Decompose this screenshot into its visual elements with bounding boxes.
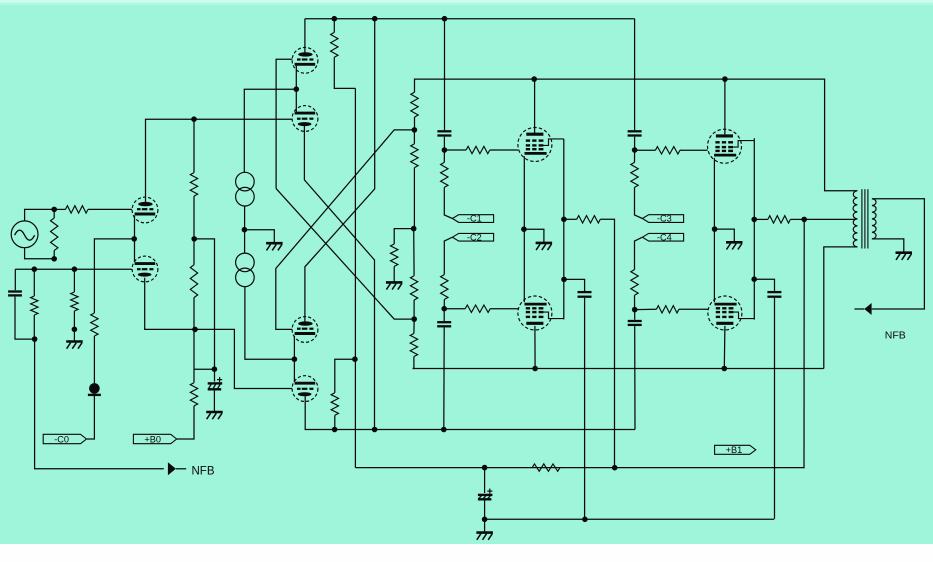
wire x634 top <box>634 19 636 130</box>
resistor R2 input shunt <box>51 218 58 251</box>
wire R10 lead <box>414 117 416 130</box>
triode V3b <box>292 106 318 132</box>
junction <box>442 147 448 153</box>
resistor R5 bias leg <box>91 313 98 336</box>
resistor R17 grid P3 <box>465 305 490 312</box>
wire R3 leads <box>33 269 35 339</box>
capacitor C4 <box>437 322 451 326</box>
junction <box>242 227 248 233</box>
wire R19 leads <box>635 308 708 310</box>
capacitor E1 electrolytic <box>208 369 223 389</box>
resistor R25 screen <box>768 216 791 223</box>
wire branch to R15 <box>335 359 355 393</box>
wire R25 leads <box>754 218 804 220</box>
junction <box>32 266 38 272</box>
wire cathode col lower right <box>713 229 715 302</box>
resistor R13 <box>410 334 417 357</box>
wire rail to V4a plate diagonal <box>305 19 375 323</box>
wire long column x355 <box>354 88 356 467</box>
label NFB <box>885 330 906 342</box>
triode V3a upper <box>292 47 318 73</box>
ground <box>476 519 493 540</box>
wire screen column left <box>563 139 565 320</box>
junction <box>191 116 197 122</box>
resistor R20 <box>441 162 448 187</box>
junction <box>531 76 537 82</box>
wire V2a cathode <box>134 216 136 239</box>
svg-text:NFB: NFB <box>885 330 906 342</box>
wire R9 leads <box>334 19 355 89</box>
capacitor C1 <box>8 292 22 296</box>
junction <box>292 356 298 362</box>
background top light strip <box>0 0 933 5</box>
wire source bottom <box>25 248 55 259</box>
wire cathode col lower <box>523 229 525 302</box>
capacitor C6 <box>578 292 592 297</box>
wire T2 secondary bottom <box>872 239 904 252</box>
transformer T2 secondary <box>872 199 876 239</box>
wire R1 leads <box>54 208 132 210</box>
wire V3a plate to rail <box>304 19 306 54</box>
junction <box>32 336 38 342</box>
resistor R11 <box>411 144 418 168</box>
wire -C2 to R21 <box>444 237 452 274</box>
wire R21 to node <box>443 300 445 309</box>
flag -C3 <box>642 214 683 224</box>
wire screen column right <box>753 138 755 319</box>
junction <box>561 217 567 223</box>
resistor R4 cathode <box>71 292 78 311</box>
junction <box>712 226 718 232</box>
wire E2 to ground line <box>484 501 486 520</box>
transformer T2 core <box>862 189 868 248</box>
resistor R22 <box>631 162 638 187</box>
resistor R10 <box>411 92 418 117</box>
wire lamp to -C0 <box>87 395 95 439</box>
wire plate bus lower <box>413 368 824 370</box>
junction <box>632 147 638 153</box>
resistor R12 <box>410 276 417 300</box>
wire R5 to lamp <box>93 336 95 383</box>
wire V4a cathode <box>293 336 295 359</box>
wire T1 bottom to driver junction <box>245 287 295 360</box>
arrow NFB in <box>854 303 871 315</box>
junction <box>372 16 378 22</box>
svg-text:-C4: -C4 <box>657 232 672 242</box>
junction <box>411 226 417 232</box>
wire R18 leads <box>635 149 708 151</box>
svg-text:NFB: NFB <box>192 466 215 478</box>
junction <box>582 517 588 523</box>
wire -C4 to R23 <box>635 237 643 269</box>
wire T1 mid <box>244 206 246 253</box>
wire bus to transformer bottom <box>824 247 858 369</box>
wire R8 to +B0 flag <box>177 406 194 439</box>
wire C4 leads <box>443 309 445 430</box>
wire V3b grid lead <box>194 118 292 120</box>
junction <box>632 307 638 313</box>
wire R24 leads <box>564 219 615 467</box>
capacitor C2 <box>437 131 451 135</box>
ground <box>386 266 403 289</box>
wire V3a grid <box>276 59 292 188</box>
junction <box>442 16 448 22</box>
wire V7 plate <box>534 326 536 369</box>
junction <box>412 127 418 133</box>
wire V4b plate lead <box>293 359 295 382</box>
ground <box>715 229 743 249</box>
wire decoupling branch <box>194 239 214 369</box>
resistor R23 <box>631 270 638 296</box>
wire cap C1 branch <box>14 269 16 290</box>
label NFB <box>192 466 215 478</box>
ground <box>66 329 83 348</box>
signal source V1 <box>11 221 38 248</box>
background bottom white band <box>0 544 933 562</box>
ground <box>896 253 913 260</box>
junction <box>482 465 488 471</box>
junction <box>191 236 197 242</box>
wire screen-R branch <box>394 229 414 244</box>
capacitor C7 <box>767 292 781 297</box>
junction <box>192 327 198 333</box>
wire R6 leads <box>193 119 195 239</box>
wire +B0 column <box>193 329 195 382</box>
flag -C2 <box>452 232 493 242</box>
junction <box>482 517 488 523</box>
wire to C6 <box>564 279 585 291</box>
junction <box>131 236 137 242</box>
wire C6 down <box>584 298 586 519</box>
resistor R6 <box>190 173 197 197</box>
resistor R24 screen <box>577 216 601 223</box>
wire tube2 grid line <box>15 268 132 270</box>
junction <box>352 356 358 362</box>
transformer T2 primary <box>853 191 857 247</box>
wire to interstage top <box>244 89 296 173</box>
triode V4a <box>292 317 318 343</box>
wire B+ rail 2 <box>415 79 858 191</box>
wire V2a grid lead <box>88 208 132 210</box>
junction <box>561 277 567 283</box>
wire R13 leads <box>413 319 415 368</box>
junction <box>212 366 218 372</box>
flag +B1 <box>715 445 756 455</box>
wire x444 top <box>444 19 446 130</box>
wire V3a cathode <box>295 66 297 90</box>
wire R22 leads <box>635 150 643 219</box>
flag -C1 <box>452 214 493 224</box>
wire NFB drop and line <box>35 339 164 469</box>
wire to C7 <box>754 279 774 291</box>
flag +B0 <box>133 434 176 444</box>
junction <box>51 207 57 213</box>
resistor R1 grid stopper <box>66 206 89 213</box>
wire R23 to node <box>634 295 636 309</box>
transformer T1 primary upper <box>236 172 255 206</box>
svg-text:-C2: -C2 <box>467 232 482 242</box>
wire R12 leads <box>413 229 415 320</box>
flag -C4 <box>642 232 683 242</box>
wire R15 to bus <box>334 415 336 429</box>
wire tube1 cathode branch <box>94 239 134 313</box>
triode V2b <box>132 256 158 282</box>
junction <box>332 16 338 22</box>
wire C2 to node <box>443 137 445 150</box>
resistor R16 grid P1 <box>466 146 490 153</box>
wire V5 plate <box>534 79 536 134</box>
junction <box>801 217 807 223</box>
resistor R3 feedback leg <box>31 296 38 315</box>
capacitor C5 <box>628 321 642 325</box>
wire R20 leads <box>444 150 452 219</box>
wire V6/V8 cathode column <box>713 158 715 229</box>
wire cap E1 tap <box>194 368 215 370</box>
wire ground line y519 <box>485 518 775 520</box>
svg-text:-C0: -C0 <box>54 434 69 444</box>
wire B+ rail top <box>305 18 635 20</box>
svg-text:+B1: +B1 <box>726 445 743 455</box>
capacitor E2 electrolytic <box>478 468 493 500</box>
resistor R26 <box>532 464 560 471</box>
wire C3 to node <box>634 137 636 150</box>
wire R16 leads <box>444 149 518 151</box>
junction <box>722 76 728 82</box>
wire R11 leads <box>413 130 415 229</box>
junction <box>72 327 78 333</box>
wire screen feed line <box>355 467 804 469</box>
wire V6 plate <box>724 79 726 136</box>
resistor R8 <box>190 383 197 406</box>
lamp DS1 <box>88 383 101 395</box>
junction <box>722 366 728 372</box>
pentode V7 lower left <box>518 296 564 330</box>
junction <box>521 226 527 232</box>
resistor R21 <box>441 275 448 300</box>
wire V2b cathode <box>145 278 193 330</box>
wire to OPT center tap <box>804 218 855 220</box>
junction <box>51 256 57 262</box>
junction <box>441 306 447 312</box>
junction <box>332 427 338 433</box>
resistor R18 grid P2 <box>655 147 680 154</box>
svg-text:-C1: -C1 <box>467 214 482 224</box>
wire V2a plate to coupling line <box>146 119 293 204</box>
wire R4 leads <box>73 269 75 329</box>
wire V5/V7 cathode column <box>523 156 525 229</box>
junction <box>372 427 378 433</box>
ground <box>206 391 223 420</box>
junction <box>612 465 618 471</box>
wire V2b plate lead <box>134 239 136 262</box>
wire V3b cathode cross diagonal <box>304 126 374 430</box>
ground <box>244 230 282 251</box>
svg-text:+B0: +B0 <box>144 434 161 444</box>
resistor R7 <box>190 265 197 298</box>
junction <box>411 316 417 322</box>
wire V8 plate <box>723 326 726 369</box>
arrow NFB out <box>168 462 186 475</box>
pentode V8 lower right <box>708 296 755 330</box>
ground <box>524 229 552 250</box>
wire T2 secondary top NFB <box>872 199 925 309</box>
triode V2a <box>132 197 158 223</box>
pentode V5 upper left <box>518 128 564 162</box>
wire C1 bottom to node <box>15 297 32 340</box>
pentode V6 upper right <box>708 129 755 163</box>
wire R2 leads <box>53 209 55 258</box>
triode V4b <box>292 376 318 402</box>
resistor R15 <box>331 393 338 416</box>
wire cathode bus A <box>335 429 635 431</box>
wire V4b cathode to bus <box>305 396 334 429</box>
junction <box>294 86 300 92</box>
wire cross diagonal to V4a grid <box>276 189 413 320</box>
wire R17 leads <box>444 308 518 310</box>
junction <box>441 427 447 433</box>
flag -C0 <box>43 434 86 444</box>
wire source top to grid node <box>25 209 55 221</box>
wire C5 leads <box>634 310 636 430</box>
junction <box>751 276 757 282</box>
wire V2b cathode to V3b grid <box>195 329 292 388</box>
wire x804 column <box>803 219 805 468</box>
capacitor C3 <box>628 131 642 135</box>
junction <box>532 366 538 372</box>
resistor R9 <box>331 32 338 57</box>
svg-text:-C3: -C3 <box>657 214 672 224</box>
wire R7 leads <box>193 239 195 330</box>
wire cross diagonal to V4b grid <box>276 130 415 330</box>
transformer T1 secondary lower <box>236 253 255 287</box>
wire V3b plate lead <box>295 89 297 113</box>
wire C7 down <box>774 298 776 519</box>
resistor R19 grid P4 <box>656 306 679 313</box>
junction <box>72 266 78 272</box>
junction <box>751 217 757 223</box>
resistor R14 <box>391 244 398 266</box>
